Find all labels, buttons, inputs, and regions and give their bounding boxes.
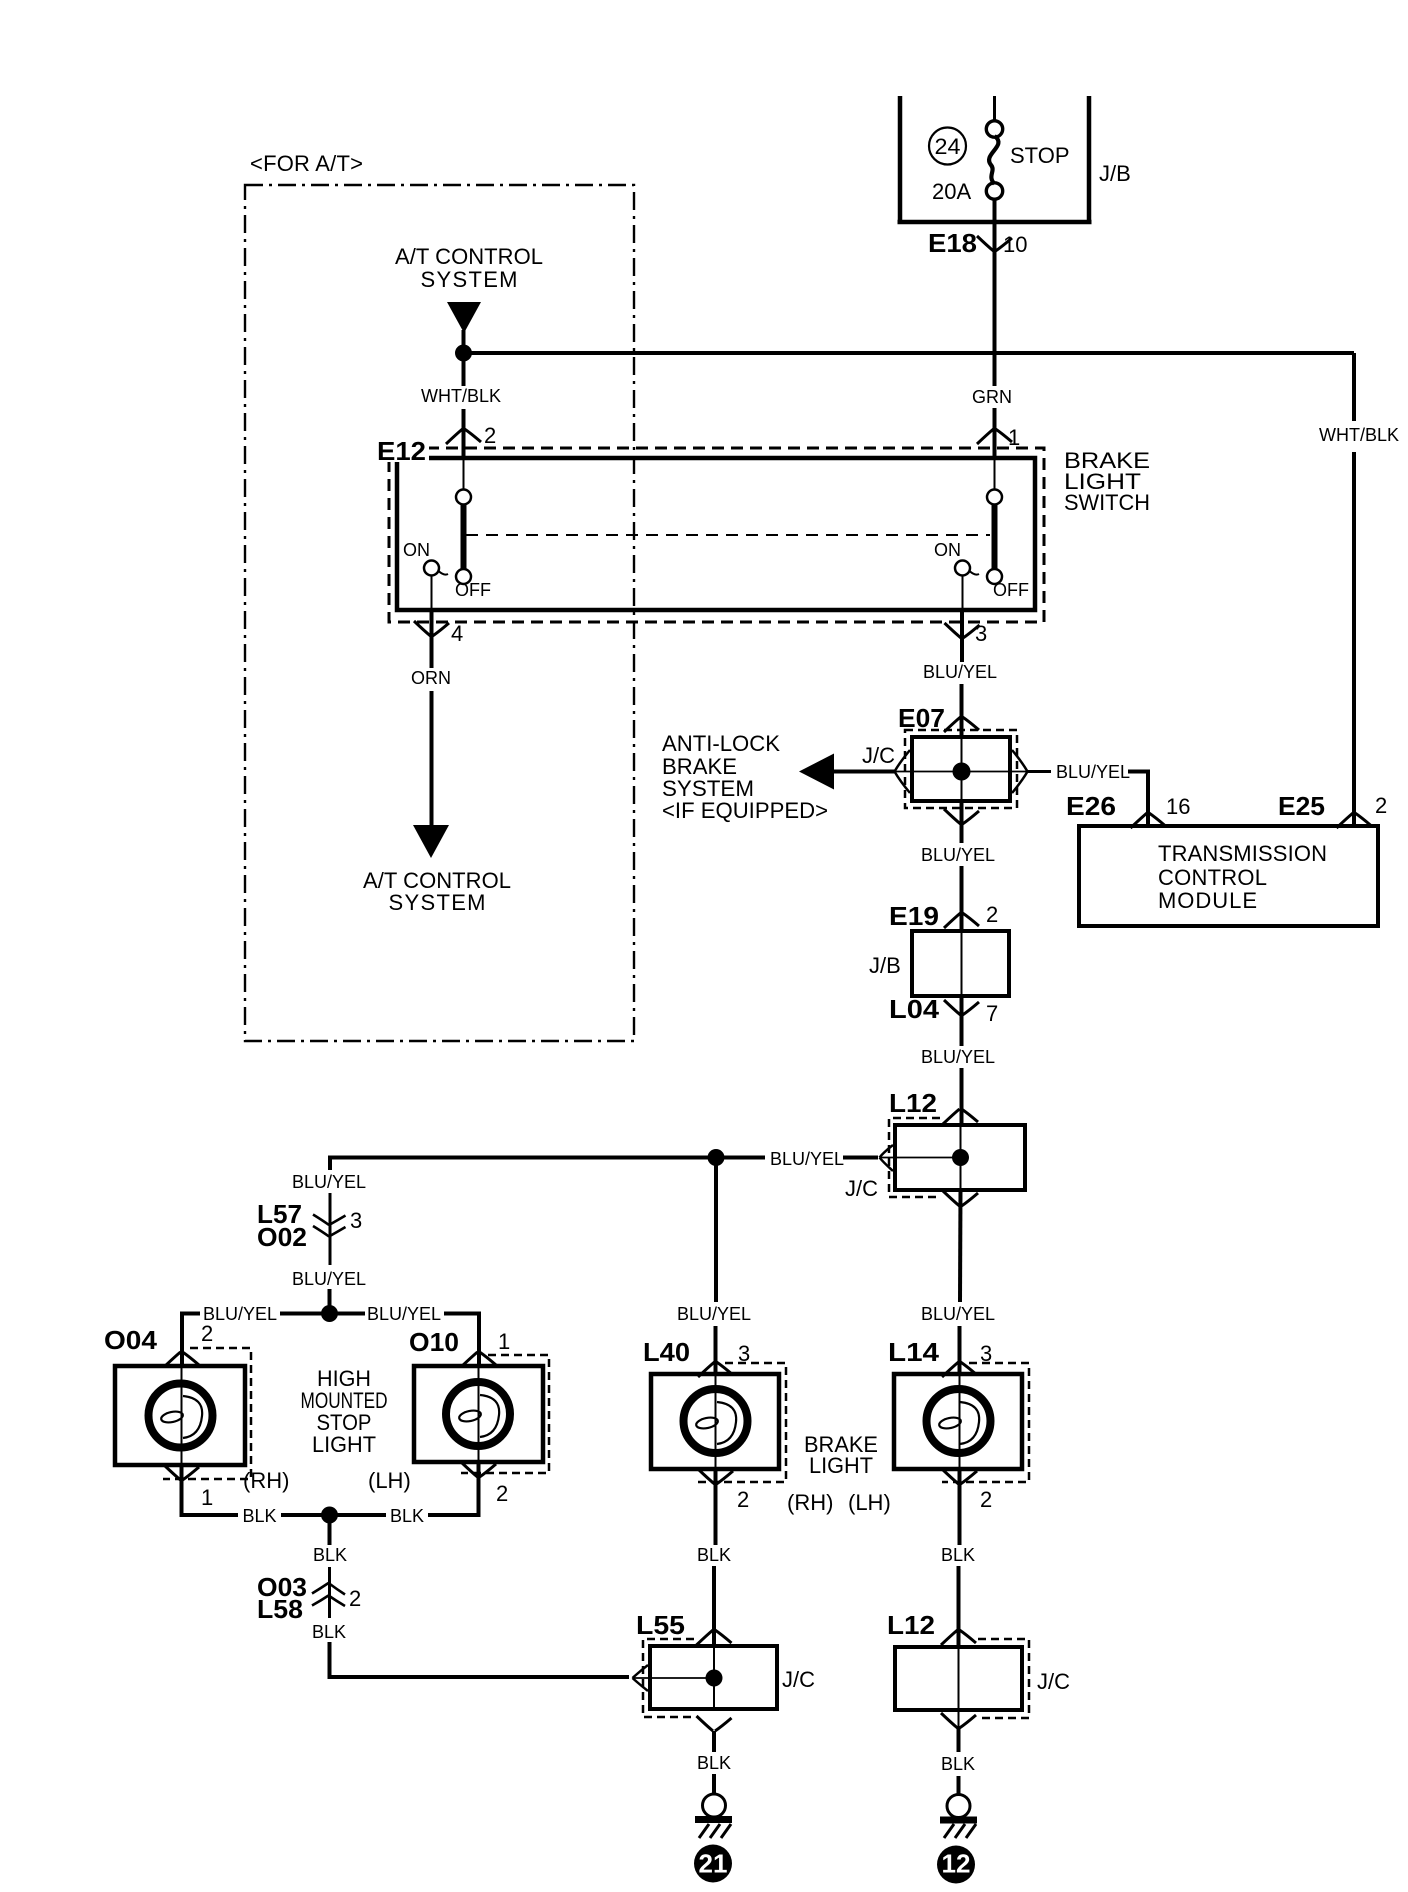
connector O03/L58 symbol <box>312 1583 345 1606</box>
svg-text:BLU/YEL: BLU/YEL <box>923 662 997 682</box>
svg-text:A/T CONTROL: A/T CONTROL <box>395 244 543 269</box>
svg-text:7: 7 <box>986 1001 998 1026</box>
svg-text:12: 12 <box>942 1849 971 1879</box>
svg-text:21: 21 <box>699 1849 728 1879</box>
junction connector L55 body <box>650 1646 777 1709</box>
svg-text:3: 3 <box>975 621 987 646</box>
brake light switch dashed outline <box>389 448 1044 622</box>
bulb O04 <box>149 1384 213 1448</box>
brake light switch body <box>397 458 1035 610</box>
lamp O10 dashed outline <box>461 1355 549 1473</box>
ground (left) <box>703 1794 726 1817</box>
connector E26 symbol <box>1131 813 1166 828</box>
svg-text:SYSTEM: SYSTEM <box>389 890 486 915</box>
wire (into L55 dot) <box>633 1677 714 1679</box>
svg-text:ANTI-LOCK: ANTI-LOCK <box>662 731 780 756</box>
svg-text:ON: ON <box>403 540 430 560</box>
junction dot E07 <box>953 763 971 781</box>
svg-text:OFF: OFF <box>455 580 491 600</box>
svg-text:L58: L58 <box>257 1594 303 1624</box>
svg-text:BLK: BLK <box>312 1622 346 1642</box>
svg-text:L40: L40 <box>643 1337 690 1367</box>
svg-text:BLK: BLK <box>941 1545 975 1565</box>
connector L12 bottom symbol <box>943 1191 978 1206</box>
svg-text:<IF EQUIPPED>: <IF EQUIPPED> <box>662 798 828 823</box>
svg-text:2: 2 <box>980 1487 992 1512</box>
wire (through L12 bottom) <box>958 1630 960 1727</box>
svg-text:E26: E26 <box>1066 791 1116 821</box>
switch contact ON (right) <box>955 561 970 576</box>
svg-text:J/B: J/B <box>1099 161 1131 186</box>
connector L12 bottom exit symbol <box>941 1713 976 1728</box>
connector E12 label <box>376 438 429 462</box>
junction dot (branch to L40) <box>708 1149 725 1166</box>
svg-text:ORN: ORN <box>411 668 451 688</box>
wire (through L55) <box>713 1630 715 1709</box>
svg-text:(LH): (LH) <box>848 1490 891 1515</box>
svg-text:2: 2 <box>737 1487 749 1512</box>
svg-text:E07: E07 <box>898 703 945 733</box>
wire BLK (L14 pin 2 down to L12) <box>958 1469 962 1545</box>
svg-text:BLU/YEL: BLU/YEL <box>921 845 995 865</box>
wire (left branch) <box>329 1193 332 1265</box>
switch contact OFF (right) <box>987 569 1002 584</box>
junction connector L12 body <box>895 1125 1025 1190</box>
wire (ON contact to pin 3) <box>962 576 964 611</box>
lamp O04 dashed outline <box>163 1348 251 1479</box>
svg-text:O10: O10 <box>409 1327 459 1357</box>
wire (through O10) <box>478 1366 480 1462</box>
switch contact top (left) <box>456 490 471 505</box>
svg-text:BLK: BLK <box>313 1545 347 1565</box>
svg-text:BLU/YEL: BLU/YEL <box>770 1149 844 1169</box>
svg-text:BLU/YEL: BLU/YEL <box>203 1304 277 1324</box>
connector O10 top symbol <box>461 1352 496 1367</box>
svg-text:2: 2 <box>349 1586 361 1611</box>
svg-text:3: 3 <box>350 1208 362 1233</box>
lamp L40 body <box>651 1374 779 1469</box>
svg-text:2: 2 <box>1375 793 1387 818</box>
wire GRN (E18 to brake light switch pin 1) <box>993 251 997 386</box>
connector L55 bottom symbol <box>697 1716 732 1731</box>
connector pin1 symbol <box>977 429 1012 444</box>
svg-text:SWITCH: SWITCH <box>1064 490 1150 515</box>
connector L14 top symbol <box>942 1362 977 1377</box>
svg-text:BLU/YEL: BLU/YEL <box>292 1172 366 1192</box>
ground reference 21 <box>694 1845 732 1883</box>
svg-text:BLU/YEL: BLU/YEL <box>921 1304 995 1324</box>
fuse 24 element <box>989 136 998 184</box>
svg-text:2: 2 <box>484 423 496 448</box>
wire BLU/YEL (down to L40) <box>714 1158 718 1303</box>
svg-text:L55: L55 <box>636 1610 685 1640</box>
svg-text:OFF: OFF <box>993 580 1029 600</box>
connector E12 symbol <box>446 429 481 444</box>
svg-text:16: 16 <box>1166 794 1190 819</box>
junction connector E07 body <box>912 737 1010 801</box>
wire BLU/YEL (E07 to E19) <box>960 801 964 843</box>
svg-text:J/B: J/B <box>869 953 901 978</box>
connector L57/O02 symbol <box>313 1215 346 1237</box>
arrow from A/T control system <box>447 302 481 333</box>
junction connector L55 dashed outline <box>643 1639 695 1717</box>
wire (pin 1 into switch, right) <box>994 458 996 490</box>
switch contact top (right) <box>987 490 1002 505</box>
svg-text:J/C: J/C <box>845 1176 878 1201</box>
connector L04 symbol <box>944 1000 979 1015</box>
svg-text:WHT/BLK: WHT/BLK <box>1319 425 1399 445</box>
lamp L14 body <box>894 1374 1022 1469</box>
wire (to junction dot) <box>328 1289 332 1314</box>
svg-text:LIGHT: LIGHT <box>312 1432 376 1457</box>
svg-text:2: 2 <box>986 902 998 927</box>
fuse number 24 circled <box>929 128 966 165</box>
junction block J/B body <box>912 931 1009 996</box>
svg-text:BLK: BLK <box>697 1545 731 1565</box>
connector E12 pin 4 symbol <box>414 621 449 636</box>
wire (ON contact to pin 4) <box>431 576 433 611</box>
wire BLK (O04 pin 1) <box>182 1465 239 1515</box>
bracket left L55 <box>633 1665 649 1691</box>
svg-text:STOP: STOP <box>1010 143 1070 168</box>
svg-text:(RH): (RH) <box>243 1468 289 1493</box>
svg-text:E18: E18 <box>928 228 977 258</box>
svg-text:O02: O02 <box>257 1222 307 1252</box>
junction block J/B (fuse box, top right) <box>898 96 1092 222</box>
wire (pin 3 out) <box>960 610 964 662</box>
svg-text:SYSTEM: SYSTEM <box>421 267 518 292</box>
connector E07 symbol <box>944 717 979 732</box>
wire BLK (L40 pin 2 down to L55) <box>714 1469 718 1545</box>
svg-text:1: 1 <box>1008 425 1020 450</box>
junction dot L12 <box>952 1149 969 1166</box>
svg-text:10: 10 <box>1003 232 1027 257</box>
arrow to A/T control system <box>413 825 449 858</box>
wire (through E07) <box>961 737 963 801</box>
junction connector L12 dashed outline <box>889 1118 941 1197</box>
wire (pin 4 out) <box>430 610 434 668</box>
bracket right E07 <box>1012 750 1028 793</box>
svg-text:4: 4 <box>451 621 463 646</box>
junction connector L12 dashed outline <box>977 1639 1029 1718</box>
wire BLK (L12 to ground) <box>957 1727 961 1752</box>
wire BLK (to L55) <box>330 1642 630 1677</box>
bracket left L12 <box>880 1145 894 1171</box>
svg-text:O04: O04 <box>104 1325 158 1355</box>
wire (through L12) <box>960 1109 962 1190</box>
svg-text:1: 1 <box>498 1329 510 1354</box>
svg-text:BLK: BLK <box>242 1506 276 1526</box>
wire (through L14) <box>959 1374 961 1469</box>
wire BLK (L55 to ground) <box>712 1731 716 1752</box>
svg-text:BLU/YEL: BLU/YEL <box>921 1047 995 1067</box>
wire BLU/YEL (L12 to L14) <box>958 1190 963 1302</box>
svg-text:J/C: J/C <box>1037 1669 1070 1694</box>
fuse 24 terminal bottom <box>986 183 1002 199</box>
bracket left E07 <box>895 750 911 793</box>
wire (through L40) <box>715 1374 717 1469</box>
wire (through O04) <box>181 1366 183 1465</box>
bulb L40 <box>684 1389 748 1453</box>
svg-text:E25: E25 <box>1278 791 1325 821</box>
svg-text:LIGHT: LIGHT <box>809 1453 873 1478</box>
svg-text:(LH): (LH) <box>368 1468 411 1493</box>
svg-text:L14: L14 <box>888 1337 940 1367</box>
fuse 24 terminal top <box>986 121 1002 137</box>
connector E18 symbol <box>977 236 1012 251</box>
connector pin 3 symbol <box>945 623 980 638</box>
svg-text:BLU/YEL: BLU/YEL <box>1056 762 1130 782</box>
wire (arrow to junction) <box>462 330 466 353</box>
junction dot (high mounted stop light feed) <box>321 1305 338 1322</box>
bulb L14 <box>927 1389 991 1453</box>
svg-text:BLU/YEL: BLU/YEL <box>367 1304 441 1324</box>
svg-text:CONTROL: CONTROL <box>1158 865 1267 890</box>
wire BLK (joining junction) <box>281 1513 386 1517</box>
svg-text:BLU/YEL: BLU/YEL <box>292 1269 366 1289</box>
wire (through J/B) <box>961 931 963 996</box>
wire BLU/YEL (to E26) <box>1128 772 1148 827</box>
junction dot (BLK) <box>321 1507 338 1524</box>
wire (fuse feed stub) <box>993 96 996 121</box>
switch linkage dashed line <box>466 534 990 536</box>
svg-text:L12: L12 <box>887 1610 935 1640</box>
lamp L40 dashed outline <box>698 1363 786 1482</box>
wire BLU/YEL (to E07) <box>960 684 964 737</box>
ground (right) <box>947 1795 970 1818</box>
wire BLK (O10 pin 2) <box>428 1462 479 1515</box>
connector L12 bottom top symbol <box>941 1630 976 1645</box>
wire (fuse to connector E18) <box>993 199 997 251</box>
svg-text:GRN: GRN <box>972 387 1012 407</box>
svg-text:MODULE: MODULE <box>1158 888 1257 913</box>
svg-text:2: 2 <box>201 1321 213 1346</box>
wire (E07 to ABS arrow) <box>834 770 895 774</box>
wire ORN (to A/T control system) <box>430 691 434 826</box>
junction connector L12 (bottom) body <box>895 1647 1022 1710</box>
svg-text:1: 1 <box>201 1485 213 1510</box>
svg-text:BLU/YEL: BLU/YEL <box>677 1304 751 1324</box>
connector O10 bottom symbol <box>461 1462 496 1477</box>
svg-text:J/C: J/C <box>782 1667 815 1692</box>
svg-text:BLK: BLK <box>697 1753 731 1773</box>
wire (branch into L12) <box>880 1157 961 1159</box>
connector L40 top symbol <box>698 1362 733 1377</box>
wire (E07 right tap) <box>962 771 1028 773</box>
wire BLU/YEL (main branch to left lights) <box>330 1158 878 1171</box>
arrow to anti-lock brake system <box>799 754 834 790</box>
svg-text:20A: 20A <box>932 179 971 204</box>
wire WHT/BLK (horizontal branch) <box>464 351 1355 355</box>
svg-text:E19: E19 <box>889 901 939 931</box>
connector L12 top symbol <box>943 1109 978 1124</box>
lamp L14 dashed outline <box>942 1363 1029 1482</box>
bulb O10 <box>446 1382 510 1446</box>
svg-text:24: 24 <box>935 134 961 159</box>
svg-text:2: 2 <box>496 1481 508 1506</box>
svg-text:BLK: BLK <box>941 1754 975 1774</box>
lamp O04 body <box>115 1366 245 1465</box>
wire BLU/YEL (L04 to L12) <box>960 996 964 1046</box>
svg-text:L12: L12 <box>889 1088 937 1118</box>
connector O04 bottom symbol <box>164 1465 199 1480</box>
ground reference 12 <box>937 1846 975 1884</box>
connector L14 bottom symbol <box>942 1469 977 1484</box>
switch blade (left, off position) <box>461 505 467 569</box>
connector L55 top symbol <box>697 1630 732 1645</box>
connector O04 top symbol <box>164 1352 199 1367</box>
svg-text:ON: ON <box>934 540 961 560</box>
svg-text:BLK: BLK <box>390 1506 424 1526</box>
connector E07 bottom symbol <box>944 809 979 824</box>
wire WHT/BLK (right branch down to E25) <box>1352 353 1356 421</box>
svg-text:E12: E12 <box>377 436 426 466</box>
wire (pin 2 into switch) <box>463 458 465 490</box>
lamp O10 body <box>414 1366 543 1462</box>
svg-text:J/C: J/C <box>862 743 895 768</box>
A/T option dashed boundary box <box>245 185 634 1041</box>
junction dot <box>455 345 472 362</box>
svg-text:WHT/BLK: WHT/BLK <box>421 386 501 406</box>
switch blade (right, off position) <box>992 505 998 569</box>
svg-text:<FOR A/T>: <FOR A/T> <box>250 151 363 176</box>
junction connector E07 dashed outline <box>905 730 1017 808</box>
connector E25 symbol <box>1337 813 1372 828</box>
transmission control module body <box>1079 826 1378 926</box>
connector L40 bottom symbol <box>698 1469 733 1484</box>
connector E19 symbol <box>944 913 979 928</box>
switch contact ON (left) <box>424 561 439 576</box>
wire BLU/YEL (to O04 and O10) <box>182 1314 479 1367</box>
switch contact OFF (left) <box>456 569 471 584</box>
svg-text:(RH): (RH) <box>787 1490 833 1515</box>
wire BLK (down from junction) <box>328 1515 332 1545</box>
junction dot L55 <box>706 1670 723 1687</box>
svg-text:L04: L04 <box>889 994 940 1024</box>
svg-text:TRANSMISSION: TRANSMISSION <box>1158 841 1327 866</box>
wire WHT/BLK (down to E12) <box>462 353 466 386</box>
